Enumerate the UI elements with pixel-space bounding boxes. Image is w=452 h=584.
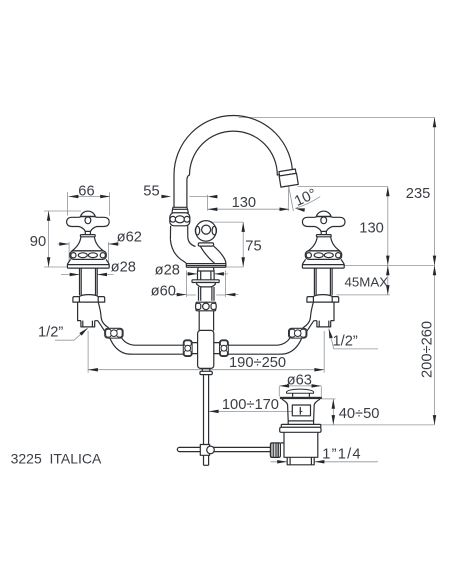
- wire: o60 tails: [174, 294, 187, 296]
- 1"1/4 arrows: [277, 460, 287, 464]
- handle stem: [85, 231, 90, 234]
- cross right port neck: [214, 343, 220, 354]
- handle dome cap: [81, 211, 96, 216]
- svg-text:45MAX: 45MAX: [345, 275, 389, 290]
- drain rim dark band: [280, 397, 322, 399]
- handle bell: [72, 237, 104, 251]
- pedestal left curve: [170, 240, 186, 264]
- svg-text:1/2”: 1/2”: [38, 324, 63, 340]
- svg-text:ø28: ø28: [111, 259, 136, 275]
- wire: 190-250 extension right: [323, 331, 325, 373]
- knurled nut: [270, 443, 280, 458]
- wire: 10deg angle arc: [295, 197, 320, 209]
- popup lever bar: [177, 447, 270, 451]
- ball center hole: [202, 225, 211, 234]
- wire: o62 extension right: [107, 242, 109, 263]
- wire: base level line (right): [344, 264, 435, 266]
- cross left port coupling: [183, 340, 192, 357]
- 130 right arrows: [386, 187, 390, 197]
- svg-text:10°: 10°: [292, 186, 319, 210]
- 190-250 arrows: [88, 368, 98, 372]
- wire: o28 left handle tails: [61, 274, 80, 276]
- wire: 235 dim vertical: [434, 117, 436, 265]
- threaded shank: [199, 287, 215, 301]
- right plumbing assembly (mirror of left): [228, 268, 339, 354]
- flange nut: [197, 283, 216, 287]
- handle ring band: [70, 251, 106, 260]
- o28 neck below pedestal: [198, 267, 215, 279]
- pedestal right curve: [214, 246, 226, 264]
- wire: 40-50 top extension: [322, 398, 336, 400]
- drain body: [280, 432, 317, 457]
- wire: 90 top extension: [44, 210, 81, 212]
- svg-text:235: 235: [406, 186, 431, 202]
- svg-text:ø63: ø63: [287, 373, 312, 389]
- cross right port coupling: [220, 340, 229, 357]
- drain flange plate: [280, 427, 321, 432]
- spout nozzle: [278, 169, 298, 187]
- 235 arrows: [433, 117, 437, 127]
- wire: 66 dim line: [69, 196, 110, 198]
- handle skirt: [67, 259, 109, 264]
- spout tube collar: [172, 207, 188, 213]
- handle skirt rim: [67, 265, 109, 269]
- wire: top reference line from spout arc top to 235 dim: [239, 116, 435, 118]
- o28 left arrows: [70, 273, 80, 277]
- 40-50 arrows: [332, 399, 336, 409]
- wire: o63 dim line: [279, 385, 321, 387]
- wire: o60 extension right: [225, 271, 227, 298]
- svg-text:190÷250: 190÷250: [229, 355, 286, 371]
- handle cross bar: [67, 217, 110, 232]
- svg-text:1/2”: 1/2”: [333, 334, 358, 350]
- wire: 75 top extension: [212, 221, 244, 223]
- svg-text:ø62: ø62: [117, 229, 142, 245]
- svg-text:130: 130: [359, 220, 384, 236]
- o28 mid arrows: [188, 272, 198, 276]
- svg-text:40÷50: 40÷50: [339, 406, 380, 422]
- mounting nut: [196, 302, 216, 311]
- 66 arrows: [69, 195, 79, 199]
- wire: 90 bottom extension: [44, 266, 67, 268]
- saddle nut: [73, 295, 105, 303]
- flange under neck: [192, 280, 219, 283]
- tailpiece: [287, 457, 314, 465]
- pedestal inner crease: [200, 246, 214, 263]
- ball joint: [196, 221, 217, 242]
- svg-text:75: 75: [245, 238, 261, 254]
- pipe to cross: [199, 311, 213, 331]
- wire: 130 right dim vertical: [387, 187, 389, 266]
- overflow arrow tail: [300, 410, 303, 412]
- 10deg arc arrowhead: [295, 207, 305, 212]
- svg-text:66: 66: [78, 183, 94, 199]
- overflow window: [292, 405, 310, 416]
- wire: nozzle vertical extension: [287, 187, 290, 212]
- wire: 90 dim vertical: [48, 211, 50, 267]
- wire: o63 extension right: [320, 386, 322, 396]
- svg-text:3225 ITALICA: 3225 ITALICA: [11, 450, 102, 466]
- wire: 190-250 dim line: [88, 369, 324, 371]
- wire: 55 dim line segment right of tube: [189, 196, 207, 198]
- wire: o60 overshoot segments: [187, 294, 196, 296]
- wire: 1/2 left leader: [55, 328, 88, 340]
- svg-text:ø60: ø60: [151, 283, 176, 299]
- wire: 1/2 right leader: [329, 329, 378, 349]
- o63 arrows: [279, 384, 289, 388]
- wire: 66 extension left: [66, 192, 68, 215]
- wire: 45MAX deck line: [337, 294, 391, 296]
- 200-260 arrows: [433, 265, 437, 275]
- ball collar: [198, 243, 213, 246]
- spout arc outer: [174, 115, 293, 207]
- wire: 100-170 leader line: [209, 410, 292, 412]
- 1/2 right leader arrow: [327, 328, 333, 338]
- pedestal rim: [186, 264, 226, 268]
- 130 top arrows: [208, 207, 218, 211]
- wire: o62 dim tails: [58, 243, 70, 245]
- wire: 55/130 shared extension at faucet axis: [207, 195, 209, 211]
- svg-text:200÷260: 200÷260: [420, 321, 436, 378]
- wire: o28 mid tails: [186, 273, 198, 275]
- drain plug cap lens: [287, 389, 314, 393]
- supply pipe curve to horizontal: [110, 338, 184, 354]
- lever clamp block: [200, 445, 209, 456]
- wire: 1"1/4 dim tails: [271, 461, 288, 463]
- wire: 66 extension right: [109, 192, 111, 215]
- drain funnel inner bottom: [288, 420, 313, 422]
- 75 arrows: [241, 222, 245, 232]
- wire: 130 top dim line: [208, 208, 290, 210]
- 100-170 arrows: [209, 410, 219, 414]
- cross fitting block: [198, 330, 214, 368]
- handle hub hole: [85, 217, 91, 224]
- wire: 200-260 dim vertical: [434, 265, 436, 425]
- svg-text:130: 130: [232, 195, 257, 211]
- spout lower tube: [170, 226, 187, 240]
- pedestal inner curve from tube: [188, 238, 196, 247]
- popup rod: [204, 375, 209, 466]
- handle tail pipe: [80, 268, 98, 295]
- overflow rod inside: [299, 407, 301, 415]
- wire: o62 extension left: [68, 242, 70, 263]
- svg-text:1”1/4: 1”1/4: [322, 447, 361, 463]
- lever clamp ball: [207, 446, 215, 454]
- elbow body: [78, 302, 109, 331]
- handle bonnet collar: [80, 235, 95, 237]
- svg-text:100÷170: 100÷170: [222, 397, 279, 413]
- 1/2 stub: [81, 321, 95, 327]
- svg-text:55: 55: [143, 184, 159, 200]
- ball joint side lobes: [195, 226, 199, 235]
- wire: 75 bottom extension: [227, 266, 244, 268]
- wire: 45MAX dim vertical: [387, 265, 389, 295]
- wire: nozzle 10deg tilted extension: [289, 187, 294, 212]
- wire: outlet level line from nozzle to 130-right dim: [298, 186, 388, 188]
- elbow coupling: [105, 328, 123, 338]
- svg-text:90: 90: [30, 234, 46, 250]
- drain funnel walls: [282, 399, 320, 425]
- spout arc inner: [187, 131, 280, 207]
- wire: 40-50 dim vertical: [332, 399, 334, 425]
- 90 arrows: [47, 211, 51, 221]
- 1/2 left leader arrow: [79, 327, 89, 336]
- drain flange top strip: [281, 424, 321, 427]
- wire: 75 dim vertical: [242, 222, 244, 267]
- drain cap legs: [293, 393, 310, 397]
- o60 arrows: [177, 293, 187, 297]
- svg-text:ø28: ø28: [155, 262, 180, 278]
- cross left port neck: [191, 343, 197, 354]
- 45MAX arrows: [386, 265, 390, 275]
- wire: o60 extension left: [186, 271, 188, 298]
- wire: drain flange level line: [318, 424, 435, 426]
- wire: o63 extension left: [278, 386, 280, 396]
- wire: 190-250 extension left: [87, 331, 89, 373]
- 55 arrows: [161, 195, 171, 199]
- cross bottom neck: [202, 368, 210, 371]
- right cross handle (mirror of left): [302, 211, 345, 268]
- spout decorative band: [170, 213, 190, 226]
- cross bottom collar: [200, 371, 212, 374]
- o62 arrows: [59, 242, 69, 246]
